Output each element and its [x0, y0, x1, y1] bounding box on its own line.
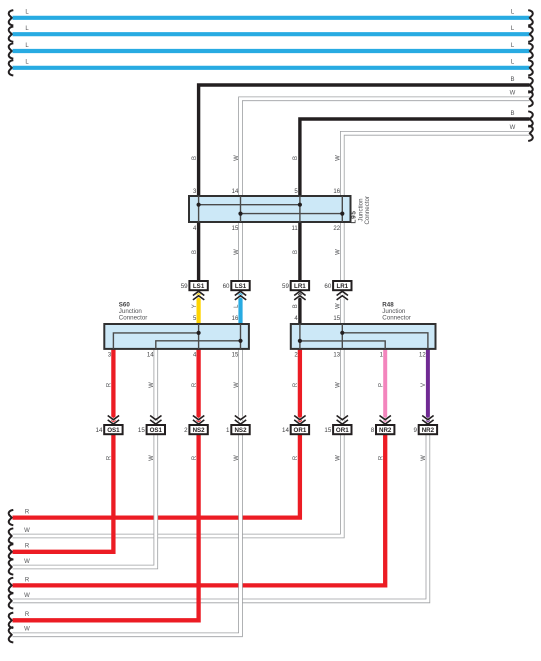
- label W below lower connector at x=155.8: [149, 455, 155, 461]
- R48 pin numbers top: 4 15: [294, 316, 340, 322]
- svg-text:15: 15: [232, 353, 239, 359]
- svg-text:14: 14: [147, 353, 154, 359]
- svg-text:W: W: [234, 382, 240, 388]
- svg-text:R: R: [25, 544, 30, 550]
- svg-text:P: P: [379, 383, 385, 387]
- svg-text:B: B: [293, 304, 299, 308]
- wire W row to 9 NR2: [9, 434, 428, 609]
- junction dot L95 bus1 left: [197, 203, 201, 207]
- svg-text:13: 13: [333, 353, 340, 359]
- svg-text:NR2: NR2: [379, 427, 392, 434]
- svg-text:8: 8: [371, 427, 375, 434]
- svg-text:15: 15: [333, 316, 340, 322]
- wire W feed to L95 pin 14: [234, 91, 533, 198]
- svg-text:60: 60: [324, 283, 331, 290]
- wire L2 (blue pass-through): [9, 26, 533, 42]
- wire W, L95 pin 22 to LR1-60: [336, 221, 343, 282]
- svg-text:NR2: NR2: [422, 427, 435, 434]
- svg-text:W: W: [24, 528, 30, 534]
- svg-text:R: R: [293, 455, 299, 460]
- wire B, LR1-59 to R48 pin 4: [293, 291, 300, 325]
- L95 pin numbers top: 3 14 5 16: [193, 189, 341, 195]
- svg-text:B: B: [192, 156, 198, 160]
- svg-text:R: R: [192, 382, 198, 387]
- connector OS1 pin 14: [96, 416, 123, 435]
- wire W, S60 pin 14 to OS1-15: [149, 348, 156, 426]
- svg-text:W: W: [149, 382, 155, 388]
- connector NS2 pin 2: [184, 416, 208, 435]
- svg-text:B: B: [293, 156, 299, 160]
- connector LR1 pin 59: [282, 281, 309, 300]
- wire R row to 14 OS1: [9, 434, 114, 560]
- svg-text:16: 16: [232, 316, 239, 322]
- svg-text:LS1: LS1: [235, 283, 247, 290]
- connector LS1 pin 59: [181, 281, 208, 300]
- wire R row to 8 NR2: [9, 434, 386, 593]
- wire W, LR1-60 to R48 pin 15: [336, 291, 343, 325]
- svg-text:OR1: OR1: [336, 427, 349, 434]
- wire W row to 1 NS2: [9, 434, 241, 643]
- svg-text:R: R: [25, 577, 30, 583]
- svg-text:Connector: Connector: [382, 314, 411, 321]
- wire B, L95 pin 11 to LR1-59: [293, 221, 300, 282]
- svg-text:NS2: NS2: [193, 427, 206, 434]
- svg-text:W: W: [234, 455, 240, 461]
- label W below lower connector at x=427.9: [421, 455, 427, 461]
- svg-text:W: W: [234, 249, 240, 255]
- svg-text:22: 22: [333, 226, 340, 232]
- svg-text:2: 2: [184, 427, 188, 434]
- svg-text:12: 12: [419, 353, 426, 359]
- connector OR1 pin 14: [282, 416, 309, 435]
- svg-text:W: W: [510, 91, 516, 97]
- wire P, R48 pin 1 to NR2-8: [379, 348, 386, 426]
- svg-text:OS1: OS1: [107, 427, 120, 434]
- svg-text:W: W: [149, 455, 155, 461]
- junction connector S60: [104, 324, 249, 349]
- wire R, S60 pin 3 to OS1-14: [107, 348, 114, 426]
- wire B feed to L95 pin 3: [192, 77, 533, 198]
- wire R row to 2 NS2: [9, 434, 199, 628]
- wire W feed to L95 pin 16: [336, 125, 533, 197]
- svg-text:1: 1: [226, 427, 230, 434]
- wire R row to 14 OR1: [9, 434, 300, 525]
- label R below lower connector at x=385.2: [379, 455, 385, 460]
- svg-text:B: B: [192, 250, 198, 254]
- connector OR1 pin 15: [324, 416, 351, 435]
- connector OS1 pin 15: [138, 416, 165, 435]
- svg-text:W: W: [510, 125, 516, 131]
- svg-text:Connector: Connector: [119, 314, 148, 321]
- svg-text:W: W: [24, 627, 30, 633]
- L95 pin numbers bottom: 4 15 11 22: [193, 226, 341, 232]
- svg-text:59: 59: [282, 283, 289, 290]
- svg-text:15: 15: [324, 427, 331, 434]
- label R below lower connector at x=113.4: [107, 455, 113, 460]
- svg-text:W: W: [24, 559, 30, 565]
- wire W, S60 pin 15 to NS2-1: [234, 348, 241, 426]
- R48 pin numbers bottom: 2 13 1 12: [294, 353, 426, 359]
- svg-text:15: 15: [138, 427, 145, 434]
- connector LS1 pin 60: [223, 281, 250, 300]
- svg-text:LR1: LR1: [336, 283, 348, 290]
- svg-text:14: 14: [282, 427, 289, 434]
- svg-text:14: 14: [96, 427, 103, 434]
- svg-text:W: W: [24, 593, 30, 599]
- svg-text:B: B: [510, 77, 514, 83]
- svg-text:R: R: [192, 455, 198, 460]
- svg-text:LS1: LS1: [193, 283, 205, 290]
- svg-text:W: W: [336, 303, 342, 309]
- wire V, R48 pin 12 to NR2-9: [421, 348, 428, 426]
- label R below lower connector at x=299.9: [293, 455, 299, 460]
- label W below lower connector at x=240.5: [234, 455, 240, 461]
- junction connector R48: [291, 324, 436, 349]
- connector NS2 pin 1: [226, 416, 250, 435]
- svg-text:W: W: [421, 455, 427, 461]
- wire B, L95 pin 4 to LS1-59: [192, 221, 199, 282]
- svg-text:R: R: [379, 455, 385, 460]
- svg-text:NS2: NS2: [234, 427, 247, 434]
- wire L4 (blue pass-through): [9, 60, 533, 76]
- svg-text:V: V: [421, 383, 427, 387]
- wire W row to 15 OS1: [9, 434, 156, 575]
- R48 label: [382, 301, 411, 321]
- svg-text:W: W: [234, 155, 240, 161]
- wire L3 (blue pass-through): [9, 43, 533, 59]
- connector NR2 pin 8: [371, 416, 395, 435]
- svg-text:W: W: [336, 382, 342, 388]
- connector LR1 pin 60: [324, 281, 351, 300]
- L95 label: [351, 196, 371, 225]
- wire B feed to L95 pin 5: [293, 111, 533, 198]
- wire W row to 15 OR1: [9, 434, 343, 544]
- wire L, LS1-60 to S60 pin 16: [234, 290, 241, 325]
- junction dot R48 bus1: [340, 331, 344, 335]
- svg-text:OR1: OR1: [294, 427, 307, 434]
- svg-text:W: W: [336, 155, 342, 161]
- junction dot L95 bus2 right: [340, 212, 344, 216]
- svg-text:R: R: [107, 455, 113, 460]
- svg-text:9: 9: [413, 427, 417, 434]
- svg-text:16: 16: [333, 189, 340, 195]
- svg-text:Connector: Connector: [364, 196, 371, 225]
- junction dot L95 bus1 right: [298, 203, 302, 207]
- wire R, R48 pin 2 to OR1-14: [293, 348, 300, 426]
- wire Y, LS1-59 to S60 pin 5: [192, 290, 199, 325]
- junction dot S60 bus1: [197, 331, 201, 335]
- label R below lower connector at x=198.6: [192, 455, 198, 460]
- svg-text:B: B: [510, 111, 514, 117]
- svg-text:W: W: [336, 455, 342, 461]
- connector NR2 pin 9: [413, 416, 437, 435]
- wire L1 (blue pass-through): [9, 10, 533, 26]
- svg-text:R: R: [293, 382, 299, 387]
- svg-text:B: B: [293, 250, 299, 254]
- S60 pin numbers bottom: 3 14 4 15: [108, 353, 239, 359]
- svg-text:W: W: [336, 249, 342, 255]
- svg-text:14: 14: [232, 189, 239, 195]
- junction connector L95: [189, 196, 351, 222]
- junction dot L95 bus2 left: [238, 212, 242, 216]
- svg-text:Y: Y: [192, 304, 198, 308]
- S60 pin numbers top: 5 16: [193, 316, 239, 322]
- svg-text:11: 11: [291, 226, 298, 232]
- wire W, L95 pin 15 to LS1-60: [234, 221, 241, 282]
- label W below lower connector at x=342.3: [336, 455, 342, 461]
- svg-text:60: 60: [223, 283, 230, 290]
- svg-text:59: 59: [181, 283, 188, 290]
- wire W, R48 pin 13 to OR1-15: [336, 348, 343, 426]
- svg-text:15: 15: [232, 226, 239, 232]
- wire R, S60 pin 4 to NS2-2: [192, 348, 199, 426]
- svg-text:R: R: [25, 510, 30, 516]
- junction dot S60 bus2: [238, 339, 242, 343]
- S60 label: [119, 301, 148, 321]
- svg-text:R: R: [107, 382, 113, 387]
- svg-text:R: R: [25, 612, 30, 618]
- junction dot R48 bus2: [298, 339, 302, 343]
- svg-text:OS1: OS1: [150, 427, 163, 434]
- svg-text:LR1: LR1: [294, 283, 306, 290]
